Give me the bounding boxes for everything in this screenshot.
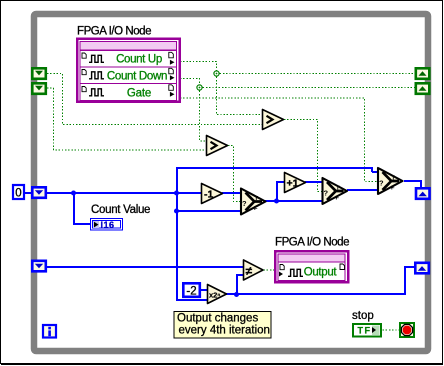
- shift register SR-A (green, right, up arrow): [416, 68, 430, 79]
- junction dot on SR1 wire at Count Value branch: [71, 191, 76, 196]
- svg-text:T: T: [336, 185, 340, 191]
- svg-text:every 4th iteration: every 4th iteration: [179, 325, 270, 337]
- decrement U3: [202, 184, 223, 204]
- indicator Count Value I16: [91, 219, 123, 231]
- wire: constant -2 to scale-by-2^n U9 input: [200, 289, 208, 291]
- constant 0: [13, 185, 24, 200]
- svg-text:Count Up: Count Up: [116, 54, 162, 66]
- svg-text:TF: TF: [358, 326, 372, 336]
- wire: Count Down row output to junction B: [180, 79, 200, 88]
- increment U8: [285, 173, 306, 193]
- svg-text:F: F: [336, 195, 340, 201]
- row Gate: [82, 85, 175, 100]
- shift register SR-L2 (green, left, down arrow): [32, 83, 46, 94]
- wire: branch down to Count Value indicator: [73, 192, 91, 224]
- wire: decrement U3 output to select U4 true input: [222, 192, 241, 194]
- wire: stop control to loop condition terminal: [383, 329, 400, 331]
- wire: SR1 output across to decrement U3 input: [46, 192, 202, 194]
- shift register SR-R2 (blue, right, up arrow): [415, 263, 429, 274]
- svg-text:Output: Output: [304, 267, 338, 279]
- FPGA I/O Node 1 frame: [77, 39, 180, 102]
- svg-text:I16: I16: [101, 220, 115, 230]
- svg-text:FPGA I/O Node: FPGA I/O Node: [275, 237, 349, 249]
- constant -2: [183, 283, 200, 297]
- loop condition terminal (stop sign): [400, 323, 414, 337]
- svg-text:-1: -1: [204, 189, 213, 201]
- svg-text:Count Down: Count Down: [107, 71, 167, 83]
- scale-by-2^n U9: [208, 285, 227, 304]
- wire: constant 0 to left shift register SR1: [25, 192, 31, 194]
- wire: junction B to right green shift register SR-B: [200, 87, 415, 89]
- svg-text:FPGA I/O Node: FPGA I/O Node: [77, 26, 151, 38]
- svg-text:stop: stop: [352, 310, 374, 322]
- wire: Count Up row output to junction A: [180, 62, 217, 74]
- shift register SR-B (green, right, up arrow): [416, 83, 430, 94]
- wire: Gate row output to select U6 selector: [180, 98, 378, 182]
- svg-text:F: F: [254, 206, 258, 212]
- row Output: [279, 264, 345, 279]
- wire: select U5 output to select U6 false input: [347, 189, 378, 191]
- junction dot select U4 output: [274, 199, 279, 204]
- select U6: [378, 168, 403, 194]
- wire: left shift register SR2 to not-equal U7 top input: [46, 266, 244, 268]
- wire: select U6 output to right shift register SR-R1: [404, 180, 421, 188]
- row Count Down: [82, 68, 175, 82]
- svg-text:F: F: [391, 185, 395, 191]
- wire: greater-than U2 output to select U5 selector: [284, 120, 322, 192]
- svg-text:≠: ≠: [246, 264, 253, 278]
- select U5: [323, 178, 348, 204]
- junction dot rail at select U4 false branch: [174, 209, 179, 214]
- junction dot rail at SR1 wire: [174, 191, 179, 196]
- shift register SR-R1 (blue, right, up arrow): [416, 188, 430, 199]
- wire: junction A down to greater-than U2 top input: [217, 74, 263, 115]
- svg-text:0: 0: [15, 188, 21, 200]
- svg-text:x2ⁿ: x2ⁿ: [209, 291, 220, 300]
- not-equal U7: [244, 260, 264, 280]
- svg-text:?: ?: [242, 199, 247, 208]
- svg-text:Output changes: Output changes: [177, 313, 258, 325]
- junction A circle: [214, 71, 219, 76]
- greater-than U2: [263, 110, 284, 130]
- svg-text:T: T: [255, 196, 259, 202]
- svg-text:+1: +1: [287, 178, 299, 190]
- svg-text:-2: -2: [186, 286, 196, 298]
- svg-text:Count Value: Count Value: [91, 204, 150, 216]
- wire: junction up to increment U8 input: [276, 182, 285, 201]
- wire: select U4 output to select U5 false input: [265, 200, 322, 202]
- FPGA I/O Node 2 frame: [275, 251, 348, 282]
- svg-text:?: ?: [379, 179, 384, 188]
- wire: junction A to right green shift register SR-A: [217, 73, 415, 75]
- svg-text:Gate: Gate: [127, 88, 151, 100]
- wire: not-equal U7 output to FPGA Output node: [264, 269, 275, 271]
- wire: increment U8 output to select U5 true input: [305, 181, 322, 183]
- wire: branch up to not-equal U7 bottom input: [236, 275, 244, 295]
- wire: rail branch to select U4 false input: [176, 210, 241, 212]
- select U4: [241, 189, 266, 215]
- wire: left shift register SR-L2 to greater-than U1 bottom input: [47, 88, 207, 150]
- row Count Up: [82, 52, 175, 65]
- shift register SR-L1 (green, left, down arrow): [32, 68, 46, 79]
- shift register SR2 (blue, left, down arrow): [32, 261, 46, 272]
- wire: left shift register SR-L1 to greater-than U2 bottom input: [47, 74, 262, 125]
- wire: scale U9 output across to right shift register SR-R2: [226, 267, 415, 295]
- stop boolean control TF: [353, 324, 381, 337]
- junction dot scale U9 output: [234, 292, 239, 297]
- wire: greater-than U1 output to select U4 selector: [228, 146, 241, 202]
- wire: vertical count rail: [176, 167, 208, 300]
- shift register SR1 (blue, left, down arrow): [32, 187, 46, 198]
- iteration terminal i: [43, 325, 56, 338]
- svg-text:?: ?: [324, 189, 329, 198]
- junction B circle: [197, 85, 202, 90]
- note box: [174, 312, 271, 339]
- wire: top rail to select U6 true input: [176, 168, 378, 172]
- svg-text:T: T: [392, 175, 396, 181]
- greater-than U1: [207, 136, 228, 156]
- wire: junction B down to greater-than U1 top input: [200, 88, 207, 142]
